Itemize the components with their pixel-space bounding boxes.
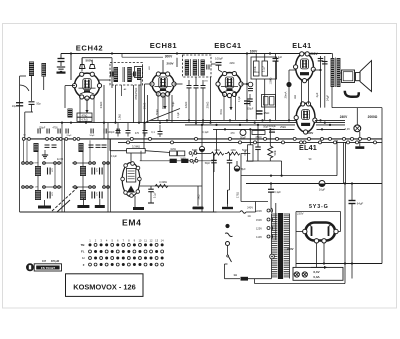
B+ bus line 1	[150, 119, 345, 121]
IF transformer T2 dashed box	[183, 55, 212, 77]
wire rail stub	[70, 54, 72, 81]
svg-text:0,1µF: 0,1µF	[178, 111, 180, 118]
dial lamp LA2	[294, 272, 299, 277]
ground below C1	[57, 67, 66, 74]
wire vertical x247	[246, 54, 248, 121]
svg-text:EM4: EM4	[122, 217, 141, 227]
svg-text:50pF: 50pF	[205, 163, 211, 165]
svg-text:500V: 500V	[85, 59, 92, 63]
ground chassis y207 b	[222, 190, 233, 209]
connector tiny caption	[42, 260, 60, 263]
svg-text:2µF: 2µF	[315, 92, 319, 97]
svg-text:500k: 500k	[274, 150, 277, 156]
capacitor 64uF	[349, 184, 364, 279]
capacitor 2uF line x320	[315, 56, 323, 108]
label 500V	[85, 59, 92, 63]
capacitor under row b	[227, 154, 233, 205]
svg-text:150V: 150V	[256, 218, 262, 222]
svg-text:25kΩ: 25kΩ	[280, 126, 286, 129]
svg-text:33kΩ: 33kΩ	[99, 102, 103, 109]
svg-text:470: 470	[135, 132, 140, 135]
heater junctions line 1	[130, 137, 370, 140]
wire ECH81 top	[162, 60, 164, 74]
wire between EL41 tubes a	[301, 80, 303, 105]
label 230V	[297, 212, 304, 216]
label 175 vertical	[237, 192, 240, 198]
svg-text:175Ω: 175Ω	[237, 192, 240, 198]
cathode arrow ECH81	[163, 96, 166, 109]
svg-text:EL41: EL41	[299, 143, 317, 152]
label -280V	[307, 131, 314, 135]
svg-text:10: 10	[138, 238, 141, 242]
ground stem x198	[193, 186, 203, 209]
T2 core	[190, 59, 198, 76]
label 100V	[250, 50, 258, 54]
wire EM4 grid feed	[110, 139, 170, 163]
wire x345 vertical	[344, 184, 346, 284]
T1 secondary winding	[127, 67, 132, 82]
svg-text:280V: 280V	[307, 131, 314, 135]
capacitor 0,1uF at EM4	[148, 186, 157, 203]
svg-text:280V: 280V	[287, 247, 294, 251]
svg-text:417: 417	[42, 260, 47, 263]
svg-text:50p: 50p	[36, 102, 41, 106]
wire top B+ rail	[61, 52, 331, 54]
svg-text:300V: 300V	[165, 55, 173, 59]
label EL41 (output)	[292, 41, 312, 50]
svg-text:240V: 240V	[340, 115, 348, 119]
T1 right winding	[137, 68, 141, 80]
wire between EL41 tubes b	[308, 80, 310, 104]
wire EL41 right pin	[313, 69, 321, 71]
svg-text:470: 470	[230, 132, 235, 135]
switch section vertical pair b	[108, 123, 111, 212]
svg-text:47kΩ: 47kΩ	[82, 114, 88, 117]
coils above switch	[34, 143, 107, 152]
svg-text:470kΩ: 470kΩ	[130, 73, 134, 81]
T2 winding 3	[201, 60, 205, 76]
svg-text:300µF: 300µF	[247, 109, 254, 111]
svg-text:3,3MΩ: 3,3MΩ	[132, 144, 140, 148]
cap 300uF	[269, 125, 277, 132]
wire to 3,3M box	[143, 123, 145, 149]
heater junctions line 2	[127, 141, 377, 144]
switch row 2 contacts	[22, 162, 110, 165]
svg-text:50µF: 50µF	[263, 126, 269, 129]
label EM4	[122, 217, 141, 227]
capacitor on x247	[244, 101, 250, 104]
mains switch S1	[225, 246, 232, 265]
ground chassis y207 a	[193, 195, 204, 209]
tube EM4 U6	[121, 162, 141, 198]
wire OT to speaker box	[340, 73, 341, 80]
svg-text:F: F	[83, 263, 85, 267]
T2 winding 1	[185, 60, 189, 76]
volume pot P1	[170, 147, 186, 161]
chassis bar mid2	[95, 199, 105, 208]
svg-text:478 µW: 478 µW	[51, 260, 60, 263]
svg-text:24µF: 24µF	[326, 95, 330, 102]
misc tiny labels B	[35, 135, 118, 196]
chassis bar left	[38, 200, 51, 209]
wire y263 B+ line	[296, 262, 382, 264]
thick hook wire under speaker	[345, 91, 359, 97]
svg-text:ECH42: ECH42	[76, 44, 103, 53]
capacitor 100pF	[211, 57, 223, 73]
svg-text:0,1µF: 0,1µF	[274, 190, 281, 194]
svg-text:2MΩ: 2MΩ	[230, 63, 235, 65]
heater bus line 2	[118, 141, 382, 143]
resistor box 2 vertical	[262, 54, 268, 121]
tube EL41 U4 output	[294, 52, 316, 83]
wire x202 vertical	[201, 125, 203, 212]
label 200V	[310, 52, 318, 56]
svg-text:4,7kΩ: 4,7kΩ	[81, 119, 88, 122]
svg-text:11: 11	[144, 238, 147, 242]
ground mid switch	[42, 150, 48, 158]
arrow above lamp box	[311, 266, 328, 269]
band coil L5	[80, 166, 86, 176]
svg-text:100pF: 100pF	[215, 57, 223, 61]
ECH42 top grid caps	[80, 58, 96, 69]
AF network outer box	[251, 57, 277, 79]
svg-text:100V: 100V	[250, 50, 258, 54]
svg-text:6,3V: 6,3V	[345, 127, 351, 131]
svg-text:500pF: 500pF	[107, 131, 115, 134]
band coil L3	[35, 166, 41, 176]
svg-text:50pF: 50pF	[90, 135, 96, 137]
switch row 2 wire	[22, 162, 110, 164]
svg-text:64µF: 64µF	[357, 202, 364, 206]
svg-text:1,5MΩ: 1,5MΩ	[271, 77, 273, 84]
svg-text:H: H	[82, 256, 84, 260]
capacitor 0,1uF psu	[268, 184, 281, 213]
svg-text:1kΩ: 1kΩ	[295, 95, 297, 99]
wire EL41 top pin to rail	[305, 53, 307, 55]
pot contacts	[189, 150, 197, 157]
svg-text:5Y3-G: 5Y3-G	[309, 204, 329, 210]
svg-text:470k: 470k	[244, 150, 247, 156]
thick cap 25k	[257, 111, 270, 115]
cathode arrow ECH42	[85, 99, 88, 114]
bottom frame wire	[20, 211, 217, 213]
svg-text:300Ω: 300Ω	[221, 109, 223, 115]
svg-text:12kΩ: 12kΩ	[184, 102, 188, 109]
tube pin chart numbers	[89, 238, 164, 242]
switch row 3 contacts	[22, 186, 110, 189]
capacitor 50k x258	[255, 125, 261, 161]
switch row 1 contacts	[22, 138, 80, 141]
resistor 25k box	[252, 131, 265, 139]
svg-text:FS 70/327: FS 70/327	[41, 266, 56, 270]
label 2000Ω	[368, 115, 378, 119]
svg-text:220V: 220V	[256, 209, 262, 213]
svg-text:1MΩ: 1MΩ	[214, 149, 219, 152]
wire x172 vertical	[171, 95, 173, 122]
tone row dark boxes	[140, 151, 217, 164]
svg-text:100pF: 100pF	[39, 128, 46, 130]
label ECH81	[150, 41, 178, 50]
mains plug pin 1	[225, 224, 229, 228]
coil group stubs	[38, 152, 83, 190]
svg-text:20mA: 20mA	[253, 71, 259, 74]
wire mains bottom	[225, 273, 272, 281]
wire heater box top	[332, 87, 382, 264]
antenna coil L1	[29, 62, 34, 77]
svg-text:6,3V: 6,3V	[313, 270, 319, 274]
resistor 33k vertical label	[99, 85, 104, 139]
resistor 470k vertical	[134, 85, 139, 123]
AVC line	[140, 180, 202, 188]
svg-text:KOSMOVOX - 126: KOSMOVOX - 126	[73, 283, 135, 292]
capacitor under row a	[205, 154, 217, 173]
capacitor 50uF on x202	[192, 146, 205, 152]
svg-text:25kΩ: 25kΩ	[264, 112, 270, 115]
transformer tap circle	[270, 254, 275, 259]
cap 300uF lower	[247, 94, 254, 111]
svg-text:0,1µF: 0,1µF	[239, 95, 241, 102]
connector icon	[26, 263, 62, 271]
oscillator diagonal wire	[146, 109, 180, 123]
wires under EBC41	[224, 93, 236, 120]
T2 trimmer caps	[207, 65, 209, 70]
grid stopper dot 25mA	[284, 70, 296, 120]
heater drop wires	[343, 142, 345, 183]
svg-text:50µF: 50µF	[240, 137, 246, 140]
ground under EM4	[133, 196, 144, 210]
svg-text:50µF: 50µF	[173, 101, 175, 107]
title box KOSMOVOX-126	[66, 274, 144, 297]
wire selector feed	[241, 201, 268, 203]
resistor box under ECH42 (4,7k)	[77, 113, 92, 122]
pilot lamp LA1	[345, 108, 361, 132]
svg-text:20mA: 20mA	[284, 91, 288, 98]
capacitor x275	[273, 54, 283, 121]
switch row 3 wire	[22, 186, 110, 188]
svg-text:16µF: 16µF	[319, 188, 326, 192]
capacitor 8uF	[234, 161, 246, 171]
ground under pilot lamp	[355, 132, 364, 149]
label EBC41	[214, 41, 242, 50]
B+ bus line 3	[185, 124, 345, 126]
svg-text:13: 13	[155, 238, 158, 242]
AF network lower box	[262, 95, 276, 108]
mains cord squiggle	[225, 232, 233, 237]
svg-text:14: 14	[161, 238, 164, 242]
svg-text:240V: 240V	[247, 207, 253, 210]
svg-text:110V: 110V	[256, 235, 262, 239]
label 300V	[165, 55, 173, 59]
mains plug pin 2	[226, 242, 230, 246]
oscillator coil block left of ECH42	[68, 109, 73, 118]
svg-text:ECH81: ECH81	[150, 41, 178, 50]
wire ECH81 left coupling	[145, 84, 153, 123]
T2 bottom caps	[187, 86, 206, 88]
wire y175 rail	[241, 140, 337, 177]
capacitor 10uF antenna	[12, 103, 23, 108]
svg-text:2000Ω: 2000Ω	[368, 115, 378, 119]
wires under ECH81	[158, 92, 169, 120]
power transformer T3 core	[272, 213, 290, 279]
svg-text:0,1µF: 0,1µF	[111, 156, 118, 158]
wire box around ECH42 top	[82, 58, 112, 88]
label 6,3V 0,3A	[313, 270, 320, 279]
wire mains y212	[195, 202, 256, 214]
OT core line	[335, 58, 337, 88]
resistor 12k vertical label	[184, 102, 188, 109]
svg-text:4700: 4700	[52, 128, 58, 130]
svg-text:3,3MΩ: 3,3MΩ	[159, 180, 167, 184]
wire T1 to ECH81 link	[122, 54, 163, 58]
wire ECH42 left pin	[65, 86, 75, 108]
svg-text:12: 12	[150, 238, 153, 242]
svg-text:1A: 1A	[233, 273, 237, 277]
switch section vertical pair a	[62, 123, 65, 212]
T1 primary winding	[114, 67, 119, 82]
svg-text:8µF: 8µF	[241, 167, 246, 171]
resistor row 1M-1M-50k	[196, 149, 250, 155]
capacitor 50pF	[29, 102, 42, 106]
wire mains down	[224, 264, 226, 279]
T1 core	[123, 67, 125, 82]
wire x216 vertical	[216, 129, 218, 153]
dial lamp LA3	[302, 272, 307, 277]
wire EBC41 plate right	[241, 83, 247, 85]
svg-text:EBC41: EBC41	[214, 41, 242, 50]
wire y183 rail	[246, 182, 382, 184]
power transformer T3 winding	[272, 214, 290, 277]
resistor 25k vertical label	[206, 77, 211, 123]
caps under bus row	[116, 123, 163, 137]
svg-text:0,1µF: 0,1µF	[154, 191, 157, 198]
B+ bus line 4	[213, 128, 345, 130]
svg-text:50µF: 50µF	[192, 149, 198, 152]
tube pin chart dot matrix	[81, 243, 164, 267]
padder caps col2	[100, 168, 103, 199]
labels under bus	[107, 131, 235, 135]
tube ECH42 U1	[72, 72, 101, 100]
label 240V	[340, 115, 348, 119]
wire rail to OT	[331, 54, 333, 59]
svg-text:0,1µF: 0,1µF	[202, 131, 209, 134]
dial lamp box	[293, 267, 343, 280]
label EL41 second	[299, 143, 317, 152]
wire bottom right corner	[255, 279, 345, 284]
wire jog	[25, 105, 33, 139]
switch inter-row verticals	[24, 140, 104, 185]
svg-text:1,5kΩ: 1,5kΩ	[120, 114, 122, 120]
svg-text:15kΩ: 15kΩ	[134, 88, 138, 95]
svg-text:125V: 125V	[256, 227, 262, 231]
heater bus line 1	[22, 138, 382, 140]
chassis bar mid	[77, 198, 89, 208]
speaker LS1	[356, 61, 372, 92]
svg-text:200V: 200V	[310, 52, 318, 56]
svg-text:1MΩ: 1MΩ	[170, 147, 176, 151]
svg-text:10µ: 10µ	[12, 104, 17, 108]
T2 winding 2	[193, 60, 197, 76]
wire T1 to ECH42 plate	[99, 79, 110, 81]
wire ECH42 box to grid	[81, 66, 83, 71]
svg-text:25pF: 25pF	[67, 135, 73, 137]
B+ bus line 2	[40, 122, 345, 124]
wire T1 bottom leads	[116, 85, 134, 123]
label ECH42	[76, 44, 103, 53]
resistor 470k vertical box	[244, 129, 253, 161]
antenna terminal stub	[20, 75, 26, 77]
IF transformer T1 dashed box	[110, 63, 143, 86]
svg-text:0,1: 0,1	[151, 131, 155, 134]
misc tiny labels A	[23, 95, 297, 137]
output transformer OT1 secondary	[337, 58, 341, 87]
title text	[73, 283, 135, 292]
antenna coil L2	[42, 63, 47, 77]
svg-text:5kΩ: 5kΩ	[197, 194, 201, 199]
tube EL41 U5	[294, 102, 317, 134]
svg-text:300µF: 300µF	[269, 125, 277, 128]
wire antenna left vertical	[19, 76, 21, 212]
wire x213 vertical	[213, 154, 215, 213]
oscillator resistor 15k	[143, 95, 148, 123]
trimmer caps above row1	[38, 129, 119, 134]
cathode arrow EBC41	[229, 97, 232, 110]
svg-text:230V: 230V	[297, 212, 304, 216]
feedback zigzag resistor	[268, 129, 277, 161]
switch shaft diagonal link	[52, 187, 78, 212]
resistor box left of ECH81	[130, 67, 143, 81]
wire antenna coils	[20, 76, 44, 101]
svg-text:25kΩ: 25kΩ	[256, 136, 262, 139]
label 200V small	[166, 62, 173, 66]
wire 5Y3 cathode leads	[317, 243, 326, 267]
label 280V	[287, 247, 294, 251]
cathode cluster 50uF	[248, 71, 273, 91]
tube ECH81 U2	[150, 72, 176, 97]
svg-text:2x470: 2x470	[57, 159, 64, 161]
resistor 3,3M box	[127, 144, 146, 153]
T2 bottom leads	[189, 77, 203, 125]
svg-text:4µF: 4µF	[278, 56, 283, 59]
svg-text:25kΩ: 25kΩ	[206, 102, 210, 109]
capacitor 16uF	[319, 181, 326, 192]
resistor box 500k vertical	[254, 54, 260, 120]
label batterij vertical	[134, 78, 141, 123]
svg-text:0,3A: 0,3A	[313, 275, 320, 279]
svg-text:50kΩ: 50kΩ	[157, 109, 159, 115]
svg-text:TB: TB	[81, 243, 85, 247]
band coil L4	[35, 190, 41, 200]
output transformer OT1 primary	[331, 58, 335, 87]
svg-text:EL41: EL41	[292, 41, 312, 50]
svg-text:15kΩ: 15kΩ	[143, 103, 147, 110]
T1 trimmer caps	[111, 72, 136, 77]
capacitor 24uF line x325	[322, 56, 329, 108]
wire y161 join	[246, 161, 282, 176]
wire x296 down	[295, 232, 297, 268]
padder caps	[48, 168, 95, 199]
label 5k vertical	[197, 194, 201, 199]
bus junction dots	[61, 119, 331, 130]
svg-text:0,1µF: 0,1µF	[263, 65, 266, 72]
speaker transformer box	[342, 70, 355, 83]
label 5Y3-G	[309, 204, 329, 210]
svg-text:1Ω: 1Ω	[247, 215, 250, 218]
band coil L6	[80, 190, 86, 200]
resistor 5k vertical line	[240, 154, 242, 202]
volume cluster 50uF	[240, 130, 246, 140]
misc tiny labels C	[124, 63, 312, 218]
wire 5Y3 plate box	[296, 212, 341, 232]
